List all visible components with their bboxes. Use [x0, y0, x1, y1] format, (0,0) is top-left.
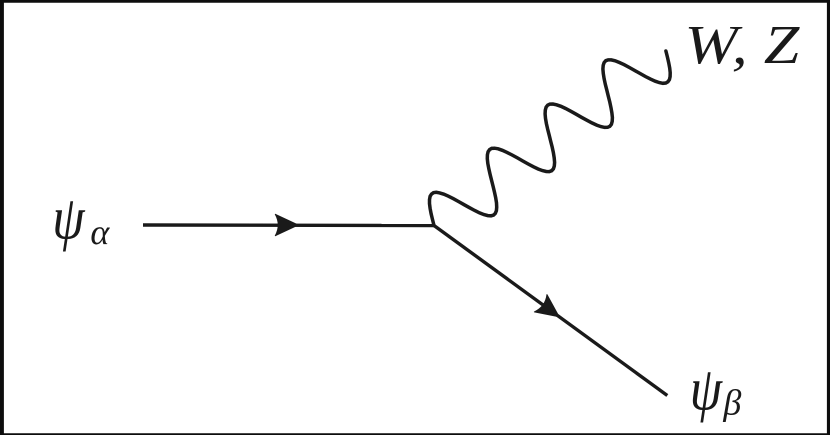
wire: outgoing fermion line psi_beta: [434, 226, 667, 396]
arrowhead on incoming fermion line: [275, 214, 298, 235]
label psi_alpha: [52, 185, 110, 253]
label psi_beta: [690, 356, 742, 424]
wire: incoming fermion line psi_alpha: [143, 223, 435, 227]
boson wavy line W,Z: [430, 51, 671, 226]
arrowhead on outgoing fermion line: [534, 295, 565, 326]
svg-text:ψ: ψ: [690, 356, 724, 424]
svg-text:β: β: [722, 382, 741, 422]
svg-text:ψ: ψ: [52, 185, 86, 253]
svg-text:α: α: [90, 212, 110, 252]
svg-text:W, Z: W, Z: [685, 14, 801, 75]
